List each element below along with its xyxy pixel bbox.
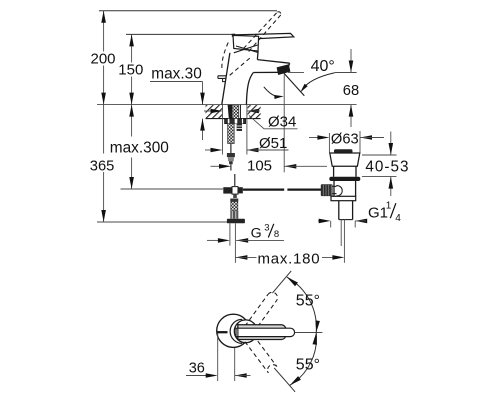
svg-text:68: 68 [343,83,359,99]
svg-text:55°: 55° [296,356,320,373]
svg-text:40°: 40° [311,58,335,75]
svg-text:105: 105 [247,158,272,175]
svg-text:8: 8 [274,229,279,240]
svg-text:55°: 55° [296,293,320,310]
svg-text:365: 365 [90,158,115,174]
svg-text:36: 36 [189,360,205,376]
svg-text:Ø51: Ø51 [259,135,287,152]
svg-text:G: G [251,225,262,241]
svg-text:Ø34: Ø34 [268,114,296,131]
svg-text:4: 4 [395,213,401,224]
svg-text:3: 3 [264,222,269,233]
svg-text:max.180: max.180 [258,250,321,267]
svg-text:150: 150 [118,61,143,78]
svg-text:40-53: 40-53 [365,159,409,176]
svg-text:max.30: max.30 [151,66,201,83]
svg-text:Ø63: Ø63 [331,131,359,147]
svg-text:200: 200 [91,51,116,68]
svg-text:max.300: max.300 [110,139,169,156]
svg-text:1: 1 [386,201,392,212]
